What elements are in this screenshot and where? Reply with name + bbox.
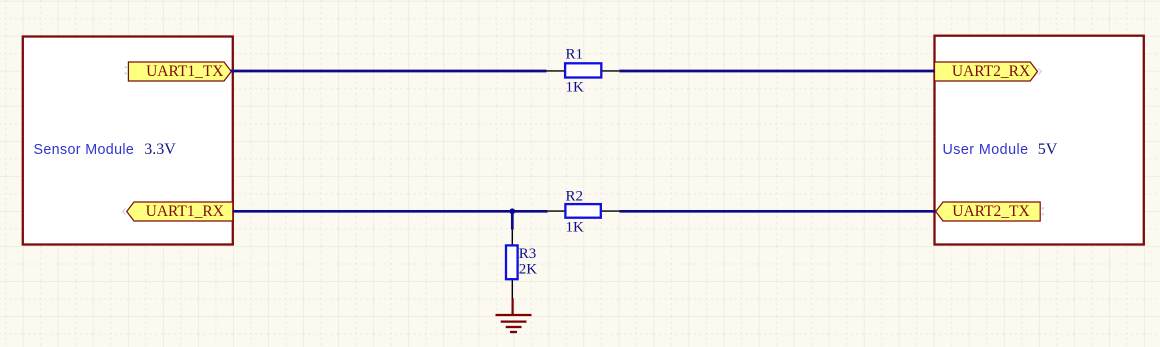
svg-text:R2: R2	[566, 189, 584, 205]
port UART2_RX	[935, 62, 1038, 81]
svg-text:R3: R3	[519, 246, 537, 262]
port marker: chevron at UART1_RX tip	[123, 208, 126, 214]
label: 3.3V	[144, 141, 176, 158]
ground	[496, 298, 532, 332]
svg-text:UART1_RX: UART1_RX	[146, 203, 224, 220]
module box: Sensor Module	[23, 37, 233, 245]
label: 5V	[1038, 141, 1058, 158]
resistor R2	[548, 189, 620, 236]
module box: User Module	[935, 36, 1144, 245]
svg-text:2K: 2K	[519, 262, 538, 278]
svg-text:3.3V: 3.3V	[144, 141, 176, 158]
wire: UART1_TX to R1	[231, 70, 547, 73]
port UART1_TX	[128, 62, 231, 81]
wire: junction down to R3	[511, 211, 514, 229]
resistor R1	[547, 47, 620, 96]
label: Sensor Module	[34, 142, 135, 158]
junction dot	[509, 208, 515, 214]
svg-text:5V: 5V	[1038, 141, 1058, 158]
wire: R2 to UART2_TX	[620, 210, 936, 213]
port UART1_RX	[127, 202, 233, 221]
wire: UART1_RX to R2	[233, 210, 548, 213]
svg-text:User Module: User Module	[943, 142, 1029, 158]
svg-text:R1: R1	[566, 47, 584, 63]
wire: R1 to UART2_RX	[619, 70, 934, 73]
svg-text:1K: 1K	[566, 219, 585, 235]
label: User Module	[943, 142, 1029, 158]
svg-text:UART1_TX: UART1_TX	[146, 63, 223, 80]
port marker: dots left of UART1_TX	[125, 67, 127, 73]
svg-text:UART2_TX: UART2_TX	[952, 203, 1029, 220]
svg-text:1K: 1K	[566, 80, 585, 96]
port UART2_TX	[936, 202, 1040, 221]
port marker: chevron at UART2_RX tip	[1038, 68, 1041, 74]
svg-text:UART2_RX: UART2_RX	[952, 63, 1030, 80]
resistor R3	[506, 230, 537, 299]
svg-text:Sensor Module: Sensor Module	[34, 142, 135, 158]
port marker: dots right of UART2_TX	[1042, 208, 1044, 214]
